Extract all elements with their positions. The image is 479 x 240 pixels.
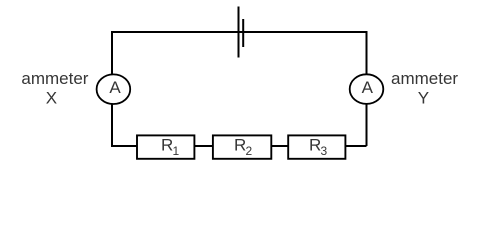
svg-text:A: A: [362, 78, 374, 97]
svg-text:ammeter: ammeter: [391, 69, 458, 88]
svg-text:A: A: [109, 78, 121, 97]
svg-text:Y: Y: [418, 89, 429, 108]
svg-text:X: X: [46, 89, 57, 108]
svg-text:ammeter: ammeter: [21, 69, 88, 88]
